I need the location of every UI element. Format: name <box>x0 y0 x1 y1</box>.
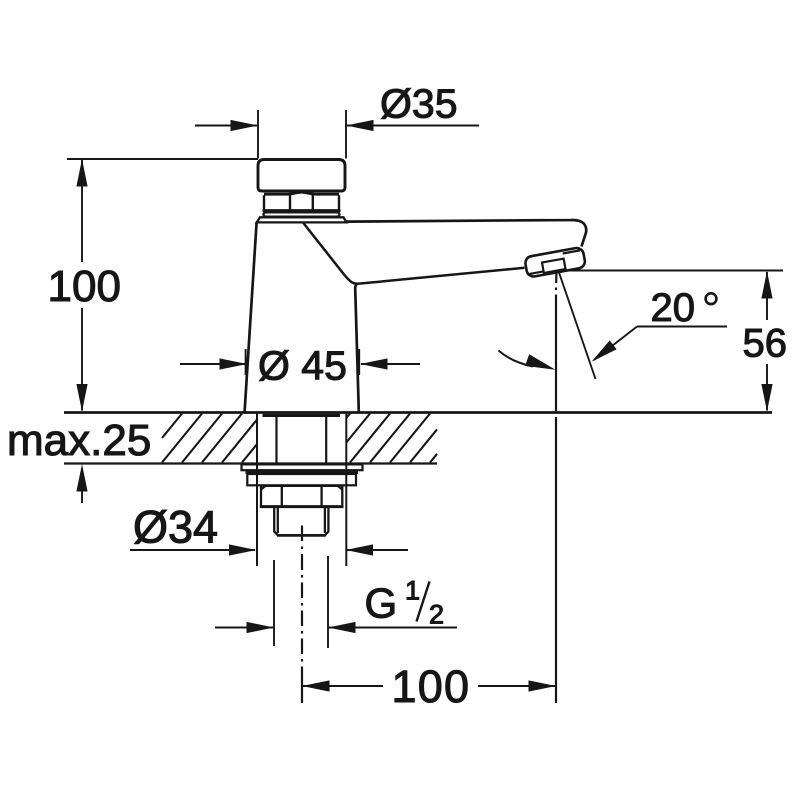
under-deck spacer sleeve <box>247 474 356 485</box>
dimension Ø45 line left with arrow <box>180 363 246 365</box>
swivel arc arrow <box>499 351 534 367</box>
cartridge hex nut <box>263 192 341 210</box>
dimension Ø45 tick left <box>245 349 247 375</box>
mounting deck bottom line <box>64 462 437 464</box>
deck hole left edge / Ø34 extension line <box>256 414 258 567</box>
svg-text:Ø34: Ø34 <box>133 502 218 553</box>
faucet body top edge and right edge <box>347 220 587 247</box>
dimension G1/2 line right with arrow <box>329 627 457 629</box>
under-deck washer plate <box>242 464 363 470</box>
svg-text:max.25: max.25 <box>7 416 151 465</box>
dimension max.25 lower arrow and stem <box>81 470 83 503</box>
svg-text:100: 100 <box>48 262 121 311</box>
20 degree leader line with arrow <box>594 327 637 361</box>
dimension 56 vertical line with arrows <box>766 272 768 411</box>
deck hole right edge / Ø34 extension line <box>345 414 347 567</box>
aerator outlet insert <box>542 259 566 273</box>
dimension G1/2 extension line right <box>327 556 329 648</box>
shank vertical centerline <box>301 526 303 704</box>
faucet cone right edge <box>355 284 359 412</box>
dimension 100 vertical line with arrows <box>81 160 83 411</box>
svg-text:1: 1 <box>405 576 420 606</box>
dimension Ø35 line left with arrow <box>195 125 257 127</box>
shank through hole left wall <box>275 417 277 465</box>
deck section hatching left <box>162 414 257 463</box>
push button cap <box>258 160 345 192</box>
svg-text:100: 100 <box>392 661 471 712</box>
deck section hatching right <box>346 414 437 463</box>
mounting deck top surface line <box>64 411 772 414</box>
dimension G1/2 line left with arrow <box>215 627 273 629</box>
dimension 56 extension line from aerator <box>564 270 783 272</box>
threaded shank end <box>274 508 328 536</box>
aerator cap edge line upper right <box>563 250 580 253</box>
svg-text:G: G <box>365 580 398 627</box>
dimension Ø35 line right with arrow <box>347 125 479 127</box>
svg-text:Ø 45: Ø 45 <box>258 343 347 389</box>
dimension Ø34 line left with arrow <box>130 549 255 551</box>
dimension Ø45 tick right <box>358 349 360 375</box>
svg-text:2: 2 <box>429 600 444 630</box>
20 degree leader shelf <box>637 326 727 328</box>
shank through hole right wall <box>325 417 327 465</box>
dimension G1/2 extension line left <box>273 560 275 646</box>
degree symbol circle <box>706 293 717 304</box>
dimension 100 bottom line with arrows <box>303 685 555 687</box>
faucet body cone left edge <box>245 222 257 411</box>
base gasket inside hole <box>263 414 341 417</box>
dimension Ø45 line right with arrow <box>361 363 420 365</box>
top escutcheon plate <box>257 217 347 222</box>
spout underside <box>358 268 525 284</box>
water stream centerline from aerator <box>555 273 558 703</box>
20 degree tilted stream line <box>559 273 596 380</box>
dimension Ø34 line right with arrow <box>347 549 409 551</box>
fixing hex locknut <box>260 485 344 506</box>
svg-text:56: 56 <box>743 322 788 366</box>
aerator / mousseur capsule <box>524 247 586 278</box>
body interior contour <box>303 223 358 284</box>
svg-text:20: 20 <box>651 286 696 330</box>
under-deck lock ring (dark band) <box>246 470 359 474</box>
washer ring <box>264 212 340 216</box>
aerator cap edge line lower left <box>529 271 544 274</box>
dimension 100 top extension line <box>67 158 258 160</box>
svg-text:Ø35: Ø35 <box>380 81 458 127</box>
dimension Ø35 extension line right <box>345 110 347 159</box>
dimension Ø35 extension line left <box>257 110 259 159</box>
